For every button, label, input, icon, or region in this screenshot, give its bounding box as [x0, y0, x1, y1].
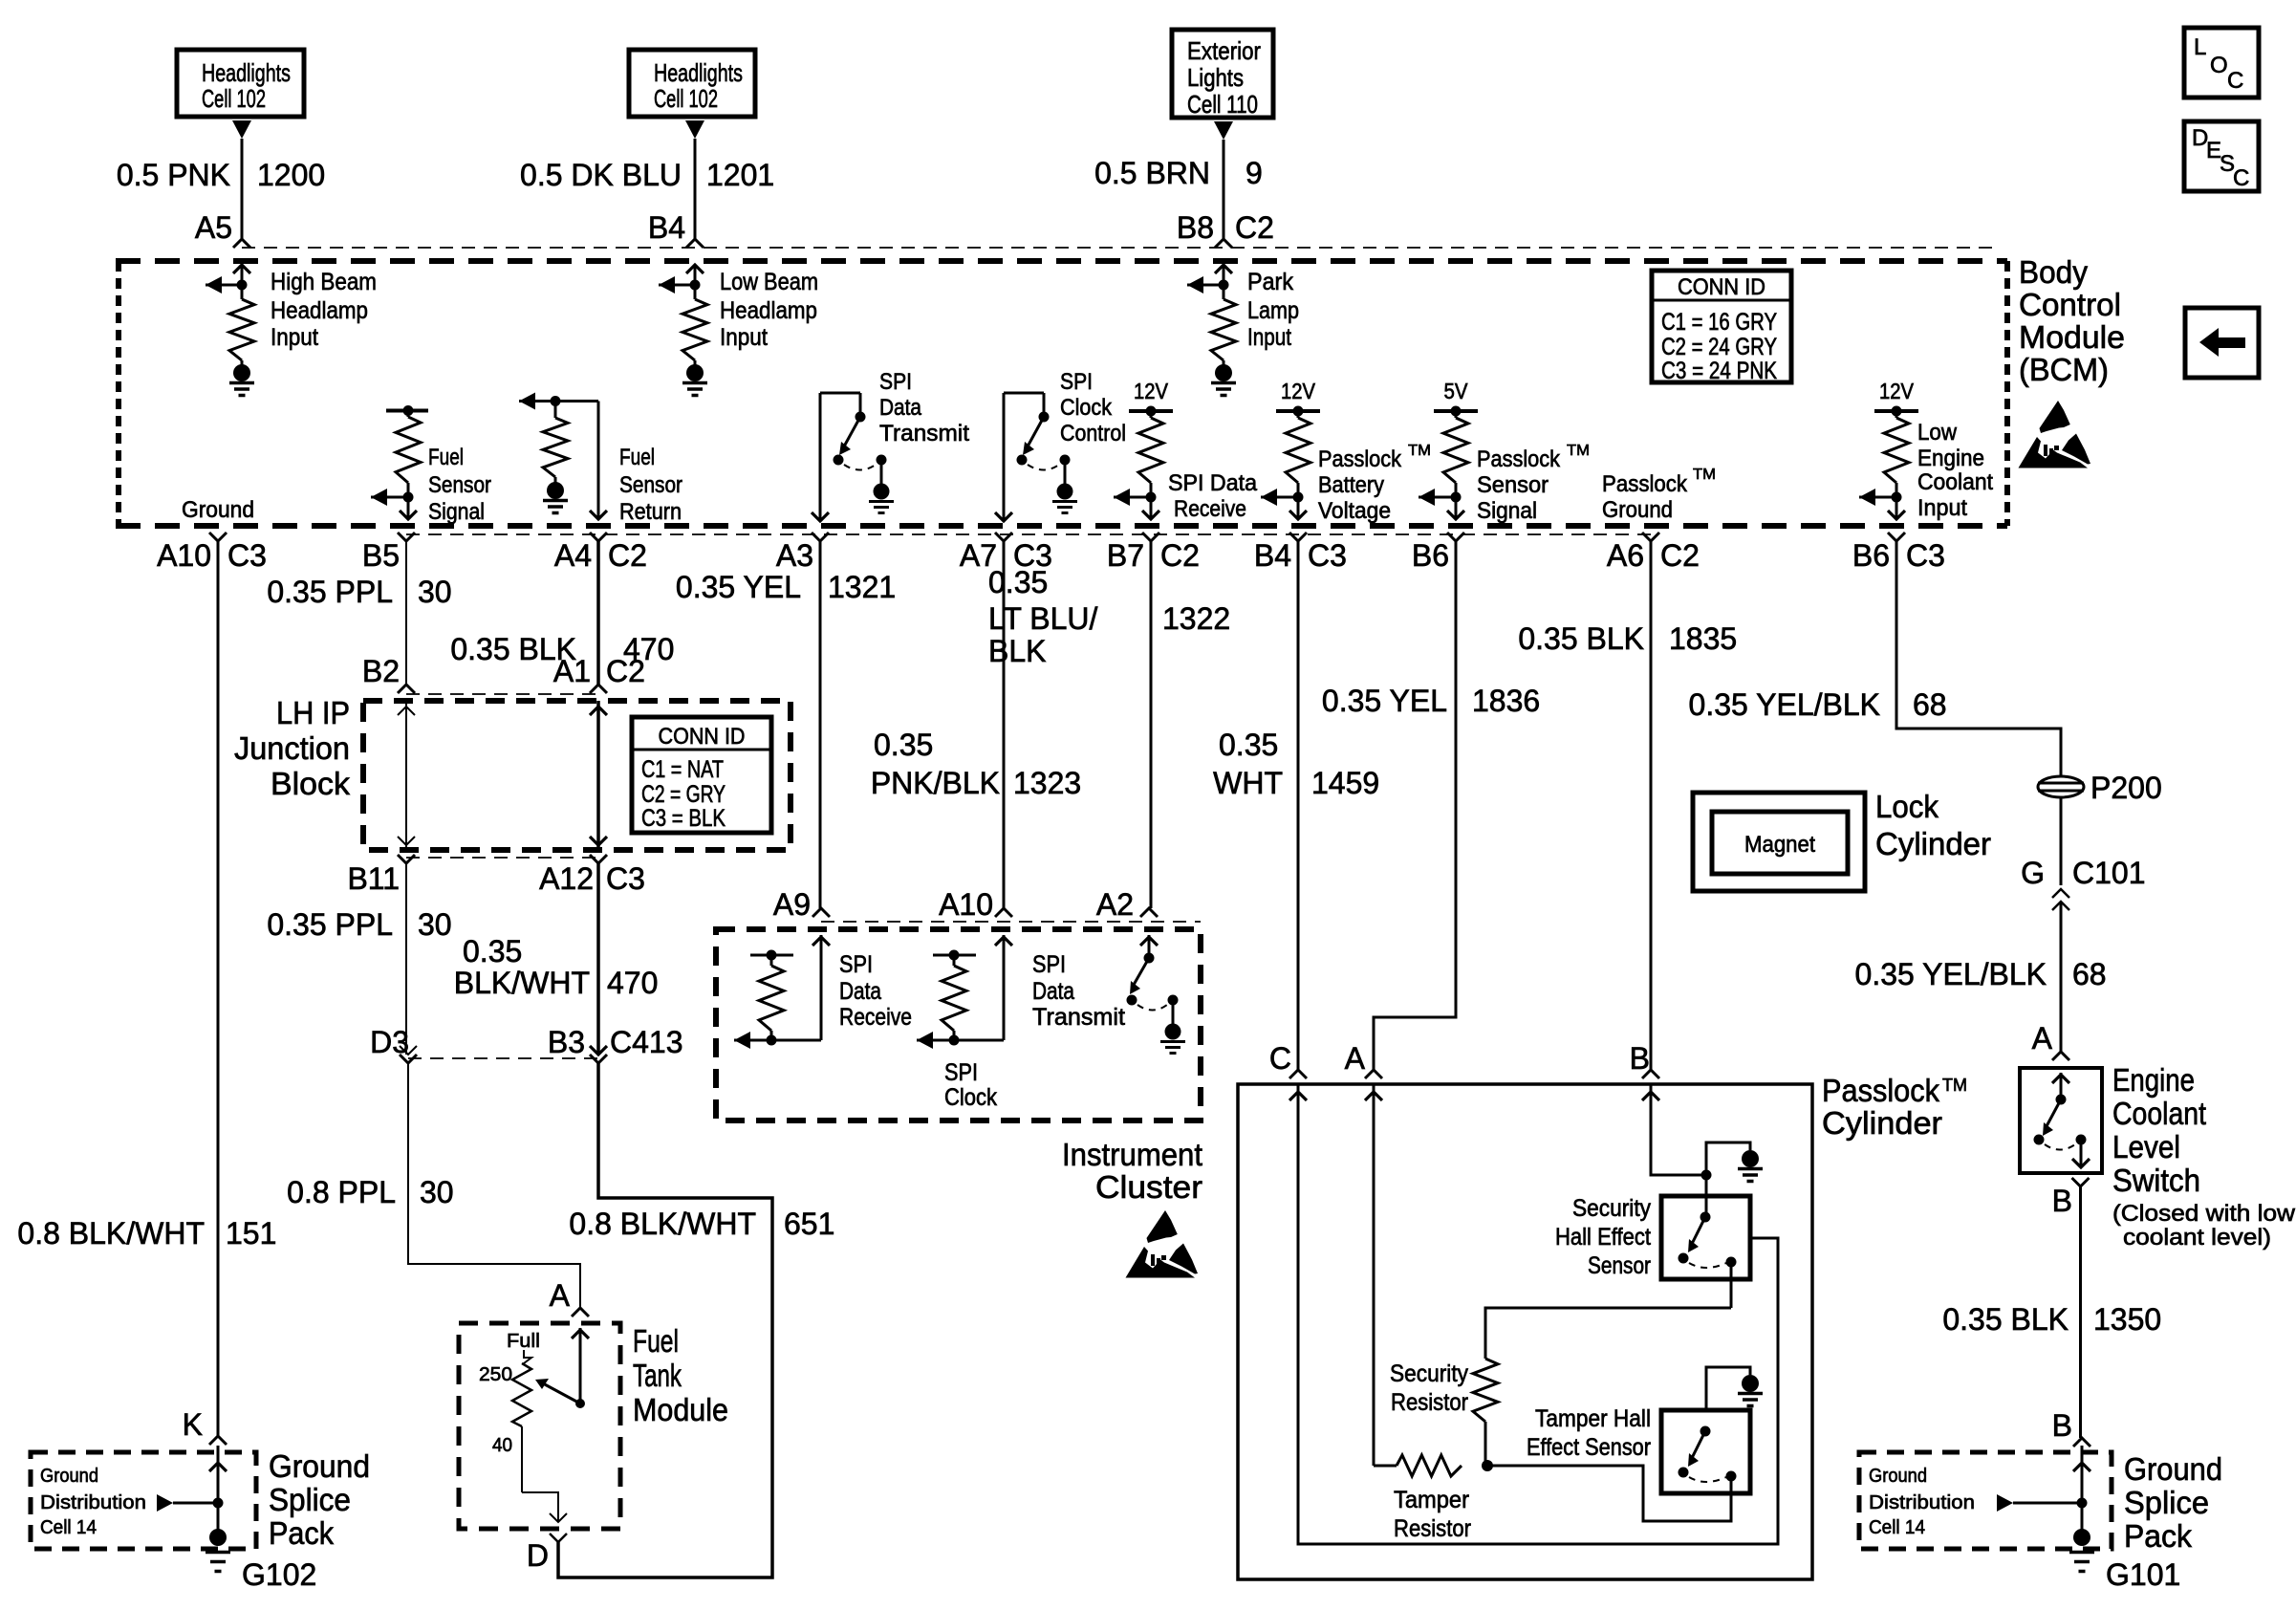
svg-text:Receive: Receive	[1174, 496, 1246, 522]
svg-text:30: 30	[418, 907, 452, 942]
svg-text:LH IP: LH IP	[276, 695, 350, 730]
svg-text:5V: 5V	[1444, 379, 1469, 403]
svg-text:C1 = 16 GRY: C1 = 16 GRY	[1661, 309, 1777, 336]
svg-text:Passlock: Passlock	[1602, 471, 1688, 497]
cluster SPI Clock resistor	[1003, 935, 1006, 1040]
svg-text:(BCM): (BCM)	[2019, 352, 2109, 387]
svg-text:Pack: Pack	[269, 1515, 334, 1551]
connector line D3-B3	[408, 1057, 598, 1059]
svg-text:TM: TM	[1942, 1076, 1967, 1095]
svg-text:C2: C2	[608, 538, 647, 573]
svg-text:Tank: Tank	[633, 1358, 682, 1393]
svg-text:TM: TM	[1693, 467, 1716, 483]
svg-text:Resistor: Resistor	[1391, 1389, 1468, 1416]
svg-text:Control: Control	[2019, 287, 2121, 322]
svg-text:C3: C3	[1906, 538, 1945, 573]
svg-text:Ground: Ground	[1869, 1466, 1927, 1487]
svg-text:Cell 102: Cell 102	[654, 84, 718, 113]
wire C101 to A	[2060, 903, 2063, 1052]
svg-text:Distribution: Distribution	[1869, 1492, 1975, 1513]
svg-text:SPI: SPI	[944, 1059, 978, 1086]
svg-text:Exterior: Exterior	[1187, 36, 1261, 65]
junction block wire A1-A12	[596, 701, 600, 850]
svg-text:0.35 BLK: 0.35 BLK	[1518, 621, 1644, 656]
svg-text:B7: B7	[1107, 538, 1144, 573]
svg-text:A4: A4	[554, 538, 592, 573]
DESC reference box	[2184, 121, 2259, 191]
svg-text:68: 68	[1913, 687, 1947, 722]
svg-text:A1: A1	[553, 654, 591, 688]
svg-text:Signal: Signal	[1477, 498, 1537, 524]
svg-text:Pack: Pack	[2124, 1518, 2192, 1554]
Lock Cylinder box	[1693, 793, 1865, 891]
svg-text:Signal: Signal	[428, 499, 485, 525]
svg-text:Ground: Ground	[269, 1448, 370, 1484]
svg-text:C101: C101	[2072, 856, 2146, 890]
svg-text:B6: B6	[1852, 538, 1890, 573]
svg-text:SPI: SPI	[879, 369, 912, 395]
arrow from headlights box 2	[685, 120, 704, 139]
svg-text:A10: A10	[939, 887, 993, 922]
security ground hook	[1701, 1170, 1712, 1181]
svg-text:Coolant: Coolant	[2112, 1096, 2206, 1131]
passlock wire C loop	[1298, 1084, 1778, 1544]
ESD symbol cluster	[1147, 1210, 1178, 1243]
wire B4 to passlock C	[1297, 541, 1300, 1070]
Body Control Module dashed box	[116, 258, 2007, 264]
source box Exterior Lights Cell 110	[1172, 30, 1273, 118]
connector line cluster pins	[821, 921, 1201, 923]
junction block wire B2-B11	[405, 701, 407, 850]
Fuel Sensor Signal resistor	[386, 409, 428, 413]
svg-text:B3: B3	[548, 1025, 585, 1059]
svg-text:C1 = NAT: C1 = NAT	[641, 756, 724, 783]
svg-text:0.8 BLK/WHT: 0.8 BLK/WHT	[569, 1207, 756, 1241]
svg-text:C2: C2	[1660, 538, 1700, 573]
svg-text:C2: C2	[1160, 538, 1200, 573]
wire B3 to fuel tank D (651 loop)	[558, 1063, 772, 1577]
svg-text:A5: A5	[195, 210, 232, 245]
svg-text:A10: A10	[157, 538, 211, 573]
svg-text:A: A	[2032, 1021, 2053, 1055]
tamper ground hook	[1706, 1367, 1750, 1410]
svg-text:A12: A12	[539, 861, 594, 896]
svg-text:Sensor: Sensor	[619, 472, 682, 498]
svg-text:0.35 YEL/BLK: 0.35 YEL/BLK	[1689, 687, 1880, 722]
Tamper Hall Effect Sensor box	[1661, 1410, 1750, 1493]
svg-text:B: B	[2052, 1184, 2072, 1218]
svg-text:B8: B8	[1177, 210, 1214, 245]
svg-text:CONN ID: CONN ID	[1678, 274, 1765, 300]
svg-text:Data: Data	[1032, 978, 1074, 1005]
svg-text:0.35 YEL/BLK: 0.35 YEL/BLK	[1855, 957, 2047, 991]
SPI Data Transmit switch	[819, 393, 822, 521]
svg-text:651: 651	[784, 1207, 834, 1241]
svg-text:L: L	[2194, 34, 2206, 60]
svg-text:Engine: Engine	[1917, 446, 1984, 471]
svg-text:1350: 1350	[2093, 1302, 2161, 1337]
svg-text:A9: A9	[773, 887, 811, 922]
svg-text:B4: B4	[648, 210, 685, 245]
svg-text:Input: Input	[1917, 495, 1967, 521]
svg-text:C3 = BLK: C3 = BLK	[641, 805, 726, 832]
svg-text:Sensor: Sensor	[1588, 1252, 1651, 1279]
svg-text:Lamp: Lamp	[1247, 297, 1299, 324]
svg-text:High Beam: High Beam	[271, 269, 377, 295]
svg-text:Lock: Lock	[1875, 789, 1939, 824]
svg-text:Security: Security	[1390, 1360, 1468, 1387]
svg-text:Fuel: Fuel	[619, 445, 655, 470]
svg-text:Lights: Lights	[1187, 63, 1244, 92]
svg-text:A: A	[1345, 1041, 1366, 1076]
svg-text:Full: Full	[507, 1331, 540, 1352]
Engine Coolant Level Switch box	[2020, 1068, 2102, 1173]
svg-text:Transmit: Transmit	[1032, 1004, 1125, 1031]
svg-text:Clock: Clock	[1060, 395, 1113, 421]
svg-text:Receive: Receive	[839, 1004, 912, 1031]
Tamper Resistor	[1374, 1465, 1397, 1468]
svg-text:0.5 BRN: 0.5 BRN	[1094, 156, 1210, 190]
LOC reference box	[2184, 28, 2259, 98]
wire P200 to C101	[2060, 797, 2063, 885]
svg-text:Magnet: Magnet	[1744, 832, 1815, 858]
svg-text:0.35: 0.35	[463, 934, 522, 968]
svg-text:Data: Data	[879, 395, 922, 421]
svg-text:Transmit: Transmit	[879, 421, 969, 446]
wire B7 to A2	[1150, 541, 1153, 908]
svg-text:0.5 DK BLU: 0.5 DK BLU	[520, 158, 682, 192]
svg-text:0.35 BLK: 0.35 BLK	[1942, 1302, 2069, 1337]
svg-text:Low Beam: Low Beam	[720, 269, 818, 295]
CONN ID table junction	[632, 717, 771, 833]
svg-text:Switch: Switch	[2112, 1163, 2200, 1198]
Security Hall Effect Sensor box	[1661, 1196, 1750, 1279]
LH IP Junction Block dashed box	[363, 701, 791, 850]
svg-text:Ground: Ground	[182, 497, 254, 523]
svg-text:Low: Low	[1917, 420, 1958, 446]
svg-text:Tamper: Tamper	[1394, 1487, 1469, 1513]
svg-text:0.35: 0.35	[1219, 728, 1278, 762]
wire A6 to passlock B	[1650, 541, 1653, 1070]
svg-text:Headlights: Headlights	[654, 58, 743, 87]
Ground Splice Pack right G101	[1859, 1452, 2112, 1549]
arrow from headlights box	[232, 120, 251, 139]
svg-text:Security: Security	[1572, 1195, 1651, 1222]
svg-text:BLK/WHT: BLK/WHT	[454, 966, 590, 1000]
Instrument Cluster dashed box	[716, 929, 1201, 1120]
Park Lamp Input resistor+ground	[1223, 265, 1225, 285]
svg-text:250: 250	[479, 1364, 512, 1385]
svg-text:B11: B11	[347, 861, 400, 896]
svg-text:Splice: Splice	[2124, 1485, 2209, 1520]
High Beam Headlamp Input resistor+ground	[241, 265, 244, 285]
svg-text:C413: C413	[610, 1025, 683, 1059]
svg-text:Control: Control	[1060, 421, 1126, 446]
svg-text:12V: 12V	[1281, 379, 1316, 403]
svg-text:Distribution: Distribution	[40, 1492, 146, 1513]
wire B6 to passlock A	[1374, 541, 1456, 1070]
svg-text:Sensor: Sensor	[428, 472, 491, 498]
svg-text:0.5 PNK: 0.5 PNK	[117, 158, 230, 192]
svg-text:68: 68	[2072, 957, 2107, 991]
svg-text:Cell 14: Cell 14	[40, 1517, 97, 1538]
connector line B2-A1	[406, 693, 598, 695]
svg-text:9: 9	[1245, 156, 1263, 190]
svg-text:coolant level): coolant level)	[2123, 1225, 2271, 1251]
Fuel Sensor Return resistor+ground	[519, 400, 598, 402]
Ground Splice Pack left G102	[31, 1452, 256, 1549]
svg-text:Cylinder: Cylinder	[1875, 826, 1991, 861]
svg-text:1201: 1201	[706, 158, 774, 192]
svg-text:Input: Input	[1247, 324, 1291, 351]
svg-text:0.35: 0.35	[988, 565, 1048, 599]
svg-text:Fuel: Fuel	[633, 1323, 679, 1359]
connector line B11-A12	[406, 857, 598, 859]
svg-text:Cylinder: Cylinder	[1822, 1105, 1942, 1141]
svg-text:K: K	[183, 1407, 203, 1442]
svg-text:Block: Block	[271, 766, 351, 801]
BCM pin row labels	[209, 533, 227, 541]
svg-text:151: 151	[226, 1216, 276, 1251]
svg-text:(Closed with low: (Closed with low	[2112, 1201, 2296, 1227]
cluster SPI Data Receive resistor	[820, 935, 823, 1040]
tamper sensor bottom stem	[1730, 1476, 1733, 1497]
svg-text:Tamper Hall: Tamper Hall	[1535, 1405, 1651, 1432]
svg-text:Module: Module	[2019, 319, 2125, 355]
connector line C2-C3 top	[242, 247, 1996, 249]
source box Headlights Cell 102 (left)	[177, 50, 304, 117]
svg-text:1200: 1200	[257, 158, 325, 192]
security sensor output	[1750, 1237, 1778, 1240]
svg-text:0.35 YEL: 0.35 YEL	[1322, 684, 1447, 718]
svg-text:A3: A3	[776, 538, 813, 573]
svg-text:Level: Level	[2112, 1129, 2180, 1164]
svg-text:TM: TM	[1567, 443, 1590, 459]
svg-text:Return: Return	[619, 499, 682, 525]
svg-text:Coolant: Coolant	[1917, 469, 1993, 495]
svg-text:1321: 1321	[828, 570, 896, 604]
svg-text:G101: G101	[2106, 1557, 2180, 1592]
svg-text:O: O	[2210, 53, 2228, 78]
svg-text:0.35: 0.35	[874, 728, 933, 762]
wire D3 to fuel tank A	[408, 1063, 580, 1307]
svg-text:30: 30	[420, 1175, 454, 1209]
Security Resistor	[1473, 1359, 1498, 1422]
svg-text:B: B	[1630, 1041, 1650, 1076]
wire B6C3 to P200	[1896, 541, 2061, 777]
svg-text:G102: G102	[242, 1557, 316, 1592]
wire A4 to A1	[596, 541, 600, 685]
svg-text:C2 = 24 GRY: C2 = 24 GRY	[1661, 334, 1777, 360]
svg-text:D3: D3	[370, 1025, 409, 1059]
svg-text:Input: Input	[720, 324, 768, 351]
svg-text:Clock: Clock	[944, 1084, 997, 1111]
svg-text:Park: Park	[1247, 269, 1293, 295]
svg-text:0.8 PPL: 0.8 PPL	[287, 1175, 396, 1209]
svg-text:SPI Data: SPI Data	[1168, 470, 1258, 496]
fuel gauge wiper arrow	[543, 1383, 580, 1403]
svg-text:C3: C3	[1308, 538, 1347, 573]
svg-text:C3: C3	[606, 861, 645, 896]
fuel gauge output wire	[522, 1492, 558, 1522]
svg-text:A: A	[550, 1278, 571, 1313]
svg-text:G: G	[2021, 856, 2045, 890]
source box Headlights Cell 102 (mid)	[629, 50, 755, 117]
wire B5 to B2	[405, 541, 407, 685]
svg-text:Body: Body	[2019, 254, 2088, 290]
svg-text:B: B	[2052, 1408, 2072, 1443]
svg-text:C2: C2	[1235, 210, 1274, 245]
svg-text:D: D	[527, 1538, 549, 1573]
svg-text:Cell 102: Cell 102	[202, 84, 266, 113]
connector line below BCM	[406, 533, 1651, 535]
svg-text:Headlights: Headlights	[202, 58, 291, 87]
wire A7 to A10	[1003, 541, 1006, 908]
Fuel Tank Module dashed box	[459, 1323, 620, 1529]
SPI Clock Control switch	[1003, 393, 1006, 521]
passlock wire A	[1373, 1084, 1375, 1466]
svg-text:Instrument: Instrument	[1062, 1137, 1202, 1172]
svg-text:SPI: SPI	[1032, 951, 1066, 978]
svg-text:B2: B2	[362, 654, 400, 688]
svg-text:Cluster: Cluster	[1095, 1169, 1202, 1205]
svg-text:Module: Module	[633, 1392, 728, 1427]
svg-text:470: 470	[607, 966, 658, 1000]
svg-text:0.35 PPL: 0.35 PPL	[267, 575, 393, 609]
Passlock Cylinder box	[1238, 1084, 1812, 1579]
svg-text:Cell 14: Cell 14	[1869, 1517, 1925, 1538]
svg-text:SPI: SPI	[1060, 369, 1093, 395]
wire A10 to K	[217, 541, 220, 1436]
svg-text:1836: 1836	[1472, 684, 1540, 718]
svg-text:Sensor: Sensor	[1477, 472, 1549, 498]
svg-text:0.35 YEL: 0.35 YEL	[676, 570, 801, 604]
svg-text:Ground: Ground	[1602, 497, 1673, 523]
svg-text:Effect Sensor: Effect Sensor	[1527, 1434, 1651, 1461]
svg-text:12V: 12V	[1134, 379, 1169, 403]
svg-text:Ground: Ground	[40, 1466, 98, 1487]
svg-text:Input: Input	[271, 324, 318, 351]
wire B11 to D3	[405, 863, 407, 1055]
svg-text:B6: B6	[1412, 538, 1449, 573]
svg-text:TM: TM	[1408, 443, 1431, 459]
svg-text:C3: C3	[227, 538, 267, 573]
arrow from exterior lights box	[1214, 121, 1233, 140]
svg-text:C3 = 24 PNK: C3 = 24 PNK	[1661, 358, 1777, 384]
svg-text:C: C	[2227, 68, 2243, 94]
svg-text:C2: C2	[606, 654, 645, 688]
svg-text:B4: B4	[1254, 538, 1291, 573]
svg-text:A2: A2	[1096, 887, 1134, 922]
svg-text:C: C	[1269, 1041, 1291, 1076]
svg-text:Voltage: Voltage	[1318, 498, 1391, 524]
svg-text:LT BLU/: LT BLU/	[988, 601, 1098, 636]
svg-text:Ground: Ground	[2124, 1451, 2222, 1487]
svg-text:Battery: Battery	[1318, 472, 1384, 498]
svg-text:30: 30	[418, 575, 452, 609]
svg-text:WHT: WHT	[1213, 766, 1283, 800]
svg-text:Hall Effect: Hall Effect	[1555, 1224, 1651, 1251]
svg-text:C2 = GRY: C2 = GRY	[641, 781, 726, 808]
CONN ID table BCM	[1652, 271, 1791, 382]
fuel gauge wiper wire	[579, 1328, 582, 1403]
svg-text:Passlock: Passlock	[1822, 1073, 1939, 1108]
svg-text:Headlamp: Headlamp	[720, 297, 817, 324]
svg-text:Fuel: Fuel	[428, 445, 464, 470]
wire A3 to A9	[819, 541, 822, 908]
svg-text:40: 40	[492, 1435, 512, 1456]
svg-text:Engine: Engine	[2112, 1062, 2195, 1098]
svg-text:P200: P200	[2090, 771, 2162, 805]
svg-text:BLK: BLK	[988, 634, 1046, 668]
svg-text:Resistor: Resistor	[1394, 1515, 1471, 1542]
svg-text:12V: 12V	[1879, 379, 1915, 403]
svg-text:1322: 1322	[1162, 601, 1230, 636]
passlock wire B	[1651, 1084, 1706, 1175]
svg-text:B5: B5	[362, 538, 400, 573]
svg-text:0.8 BLK/WHT: 0.8 BLK/WHT	[17, 1216, 205, 1251]
svg-text:PNK/BLK: PNK/BLK	[871, 766, 1000, 800]
svg-text:Data: Data	[839, 978, 881, 1005]
cluster SPI Data Transmit switch	[1148, 935, 1151, 958]
left arrow reference box	[2185, 308, 2259, 378]
svg-text:C: C	[2233, 165, 2249, 191]
svg-text:Junction: Junction	[234, 730, 350, 766]
svg-text:1835: 1835	[1669, 621, 1737, 656]
svg-text:A6: A6	[1607, 538, 1644, 573]
svg-text:Passlock: Passlock	[1318, 446, 1402, 472]
svg-text:1459: 1459	[1311, 766, 1379, 800]
svg-text:0.35 PPL: 0.35 PPL	[267, 907, 393, 942]
fuel gauge resistor	[524, 1350, 531, 1363]
svg-text:CONN ID: CONN ID	[659, 724, 746, 750]
wire A12 to B3	[596, 863, 600, 1055]
svg-text:Headlamp: Headlamp	[271, 297, 368, 324]
svg-text:1323: 1323	[1013, 766, 1081, 800]
security switch feed	[1705, 1175, 1708, 1217]
svg-text:Splice: Splice	[269, 1482, 351, 1517]
Low Beam Headlamp Input resistor+ground	[694, 265, 697, 285]
ESD symbol BCM	[2040, 401, 2070, 433]
svg-text:SPI: SPI	[839, 951, 873, 978]
svg-text:Passlock: Passlock	[1477, 446, 1561, 472]
inline connector P200	[2038, 776, 2084, 797]
svg-text:Cell 110: Cell 110	[1187, 90, 1258, 119]
